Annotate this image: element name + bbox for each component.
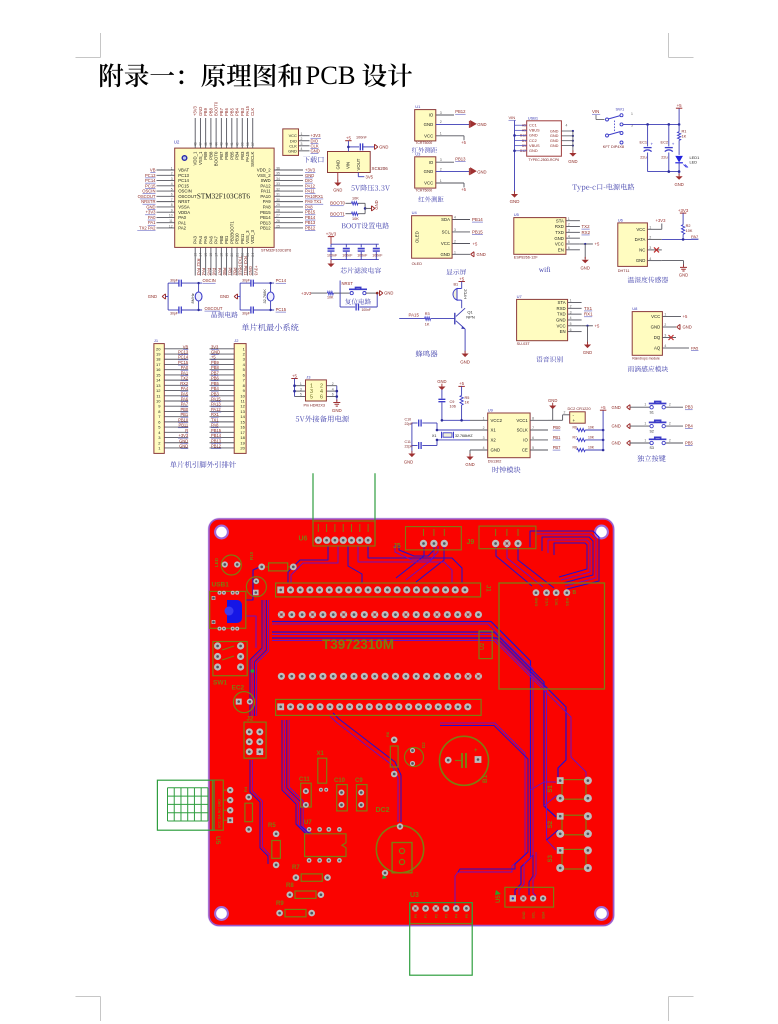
svg-text:1: 1 <box>300 382 302 386</box>
caption 复位电路 <box>345 298 371 304</box>
crystal Y1 8MHz with load caps <box>168 278 202 315</box>
svg-text:GND: GND <box>148 294 157 299</box>
svg-text:PB7: PB7 <box>553 445 561 450</box>
svg-text:43: 43 <box>220 142 224 146</box>
svg-text:32.768kHZ: 32.768kHZ <box>455 434 473 438</box>
clock chip U9 DS1302 <box>470 408 548 464</box>
caption 温湿度传感器 <box>628 277 668 283</box>
capacitor 100nF C1 <box>327 244 338 259</box>
svg-text:6: 6 <box>171 193 173 197</box>
svg-text:10K: 10K <box>588 446 595 450</box>
svg-text:C9: C9 <box>355 778 363 784</box>
svg-text:GND: GND <box>534 597 539 606</box>
svg-text:+: + <box>474 748 478 754</box>
svg-text:24: 24 <box>251 253 255 257</box>
svg-text:VCC: VCC <box>557 323 566 328</box>
svg-text:GND: GND <box>477 122 486 127</box>
net label PA15 and base resistor R3 1K <box>399 312 455 327</box>
svg-text:GND: GND <box>556 318 566 323</box>
svg-text:XC6206: XC6206 <box>372 166 389 171</box>
svg-text:4: 4 <box>171 182 173 186</box>
svg-text:EN: EN <box>560 329 566 334</box>
IR sensor U3 TCRT5000 <box>415 151 487 192</box>
svg-text:4: 4 <box>301 147 303 151</box>
svg-text:PA1: PA1 <box>178 220 186 225</box>
svg-text:B1: B1 <box>482 774 489 783</box>
svg-text:9: 9 <box>171 208 173 212</box>
svg-text:OSCOUT: OSCOUT <box>138 194 156 199</box>
svg-text:1: 1 <box>664 313 666 317</box>
trace top-left hooks <box>395 545 438 560</box>
svg-text:8: 8 <box>171 203 173 207</box>
svg-text:PA11: PA11 <box>261 189 271 194</box>
svg-text:10K: 10K <box>352 197 359 201</box>
power +3V3 (reset) <box>301 291 312 296</box>
svg-text:1: 1 <box>644 422 646 426</box>
svg-text:R5: R5 <box>465 396 470 400</box>
PCB resistor R5 <box>268 823 280 868</box>
wire junction to ground (BOOT) <box>364 200 379 213</box>
svg-text:R4: R4 <box>243 786 248 792</box>
svg-text:8MHz: 8MHz <box>190 293 195 303</box>
svg-text:R8: R8 <box>286 883 294 889</box>
svg-text:100nF: 100nF <box>362 308 371 312</box>
svg-text:PB14: PB14 <box>260 215 271 220</box>
svg-text:6: 6 <box>568 246 570 250</box>
svg-text:3: 3 <box>568 229 570 233</box>
caption 芯片滤波电容 <box>341 267 381 273</box>
wifi module U5 ESP8266-12F <box>514 212 580 260</box>
svg-text:45: 45 <box>209 142 213 146</box>
svg-text:SDA: SDA <box>441 217 450 222</box>
svg-text:GND: GND <box>332 408 342 413</box>
svg-text:+: + <box>672 141 675 146</box>
MCU U2 top pins, wires and net labels <box>193 101 256 167</box>
svg-text:TXD: TXD <box>555 230 564 235</box>
svg-text:PA7: PA7 <box>691 234 699 239</box>
svg-text:2: 2 <box>171 172 173 176</box>
svg-text:3: 3 <box>649 246 651 250</box>
svg-text:2: 2 <box>440 120 442 124</box>
svg-text:22pF: 22pF <box>405 422 414 426</box>
svg-text:S1: S1 <box>548 785 554 793</box>
svg-text:P2: P2 <box>434 914 438 918</box>
ground + cap C9 106 + resistor R5 1K (clock left) <box>437 379 470 422</box>
PCB IC U7 <box>304 820 346 863</box>
svg-text:30pF: 30pF <box>242 278 250 282</box>
svg-text:PA8: PA8 <box>305 204 313 209</box>
svg-text:PA9: PA9 <box>263 199 271 204</box>
trace bundle top right loop <box>530 531 599 589</box>
svg-text:BOOT0: BOOT0 <box>330 201 345 206</box>
svg-text:D2: D2 <box>421 742 426 748</box>
svg-text:8: 8 <box>532 417 534 421</box>
svg-text:X1: X1 <box>317 751 325 757</box>
resistor 10K (BOOT1) <box>346 212 366 221</box>
green annotation box (top, U6) <box>313 473 375 544</box>
PCB battery DC2 <box>376 807 424 879</box>
svg-text:VOUT: VOUT <box>356 158 361 170</box>
svg-text:GND: GND <box>583 350 592 355</box>
svg-text:2: 2 <box>664 323 666 327</box>
svg-text:GND: GND <box>491 448 501 453</box>
wire +5 to VIN with junction <box>347 141 359 152</box>
svg-text:GND: GND <box>510 199 520 204</box>
svg-text:NPN: NPN <box>466 314 475 319</box>
PCB diode D2 <box>405 742 427 767</box>
J2 net labels <box>211 344 222 448</box>
battery DC2 CR1220 <box>548 406 591 423</box>
svg-text:TX2: TX2 <box>582 224 591 229</box>
svg-text:GND: GND <box>568 159 577 164</box>
ground (OLED) <box>471 252 486 257</box>
svg-text:+5: +5 <box>461 187 466 192</box>
svg-text:GND: GND <box>581 265 590 270</box>
PCB socket header J1 row1 <box>276 583 491 597</box>
svg-text:R9: R9 <box>276 901 284 907</box>
svg-text:OSCOUT: OSCOUT <box>205 306 223 311</box>
push button S3 <box>612 437 694 450</box>
net label BOOT1 <box>330 211 345 216</box>
svg-text:2: 2 <box>669 422 671 426</box>
caption 红外测距 (U3) <box>418 196 443 202</box>
pull-up resistor R2 10K <box>678 208 693 240</box>
svg-text:AQ: AQ <box>654 346 661 351</box>
caption 显示屏 <box>446 269 466 275</box>
svg-text:25: 25 <box>276 224 280 228</box>
svg-text:GND: GND <box>651 325 661 330</box>
svg-text:PC13: PC13 <box>145 173 156 178</box>
svg-text:PB3: PB3 <box>685 405 693 410</box>
svg-text:VDDA: VDDA <box>178 210 190 215</box>
svg-text:4: 4 <box>454 216 456 220</box>
svg-text:1: 1 <box>483 417 485 421</box>
svg-text:STM32F103C8T6: STM32F103C8T6 <box>261 249 291 253</box>
PCB USB1 connector <box>210 582 246 631</box>
ground (crystal circuit 1) <box>148 294 168 299</box>
J1 net labels <box>178 344 189 448</box>
svg-text:+5: +5 <box>461 140 466 145</box>
PCB connector U5 (left, DHT11) + green hatch annotation <box>212 780 233 845</box>
svg-text:PB1: PB1 <box>553 435 561 440</box>
svg-text:7: 7 <box>171 198 173 202</box>
svg-text:P0: P0 <box>414 914 418 918</box>
svg-text:20: 20 <box>240 445 245 450</box>
filter capacitor rail wires <box>331 237 379 260</box>
trace bundle U5 bottom feed <box>529 852 536 896</box>
svg-text:5: 5 <box>570 322 572 326</box>
svg-text:48: 48 <box>194 142 198 146</box>
svg-text:GND: GND <box>146 204 155 209</box>
svg-text:SWD: SWD <box>261 178 271 183</box>
svg-text:EN: EN <box>558 247 564 252</box>
svg-text:LED: LED <box>214 557 219 567</box>
PCB connector J9 (3 pads) <box>467 526 536 549</box>
svg-text:X1: X1 <box>491 428 497 433</box>
svg-text:2: 2 <box>301 137 303 141</box>
svg-text:OSCOUT: OSCOUT <box>178 194 197 199</box>
svg-text:19: 19 <box>225 253 229 257</box>
trace to battery DC2 <box>330 713 401 822</box>
svg-text:C11: C11 <box>299 777 310 783</box>
capacitor 100nF <box>356 136 374 151</box>
svg-text:R6: R6 <box>573 426 577 430</box>
svg-text:4: 4 <box>570 316 572 320</box>
resistor R1 1K <box>678 124 687 154</box>
pull-up resistors 10K x3 (clock) <box>553 405 607 452</box>
svg-text:U5: U5 <box>514 212 520 217</box>
svg-text:29: 29 <box>276 203 280 207</box>
IR sensor U1 TCRT5000 <box>415 104 487 145</box>
svg-text:PA11: PA11 <box>305 189 315 194</box>
svg-text:TYPEC-250D-RCP6: TYPEC-250D-RCP6 <box>528 158 559 162</box>
svg-text:U7: U7 <box>517 294 523 299</box>
svg-text:PC13: PC13 <box>178 173 189 178</box>
PCB socket header J6 row4 <box>276 699 482 715</box>
svg-text:PC15: PC15 <box>276 307 287 312</box>
svg-text:GND: GND <box>437 379 446 384</box>
document title 附录一：原理图和 PCB 设计 <box>100 60 412 90</box>
buzzer B1 <box>453 282 468 309</box>
PCB board <box>208 518 616 928</box>
svg-text:10K: 10K <box>588 436 595 440</box>
caption 语音识别 <box>536 356 563 362</box>
PCB button S3 <box>548 846 592 872</box>
svg-text:4: 4 <box>332 387 334 391</box>
svg-text:VDD_3: VDD_3 <box>250 229 255 243</box>
svg-text:U6: U6 <box>299 536 308 543</box>
svg-text:14: 14 <box>199 253 203 257</box>
svg-text:ESP8266-12F: ESP8266-12F <box>514 256 539 260</box>
svg-text:OSCIN: OSCIN <box>178 189 192 194</box>
svg-text:J5: J5 <box>393 543 401 550</box>
svg-text:SCL: SCL <box>532 911 536 919</box>
display U4 OLED <box>412 210 470 266</box>
net label VIN (USB1 left) + wire to ground <box>509 115 520 204</box>
svg-text:31: 31 <box>276 193 280 197</box>
svg-text:DC2: DC2 <box>376 807 390 814</box>
trace bundle rows to right with diagonal fan <box>272 622 586 896</box>
svg-text:U5: U5 <box>214 836 221 845</box>
svg-text:PA15: PA15 <box>409 313 420 318</box>
svg-text:2: 2 <box>568 223 570 227</box>
net label TX2 <box>582 224 591 229</box>
svg-text:SDA: SDA <box>542 911 546 919</box>
svg-text:U2: U2 <box>480 643 486 650</box>
PCB resistor R8 <box>286 883 324 898</box>
svg-text:36: 36 <box>276 166 280 170</box>
svg-text:VCC: VCC <box>544 597 549 606</box>
svg-text:X2: X2 <box>491 438 497 443</box>
svg-text:GND: GND <box>305 173 314 178</box>
svg-text:GND: GND <box>336 160 341 170</box>
svg-text:J9: J9 <box>467 539 475 546</box>
caption 单片机引脚外引排针 <box>170 461 236 468</box>
regulator U10 XC6206 <box>328 152 389 173</box>
svg-text:DQ: DQ <box>654 335 661 340</box>
svg-text:PB13: PB13 <box>260 220 271 225</box>
svg-text:+5: +5 <box>473 241 478 246</box>
svg-text:+3V3: +3V3 <box>301 291 312 296</box>
svg-text:18: 18 <box>220 253 224 257</box>
svg-text:17: 17 <box>214 253 218 257</box>
caption 红外测距 (U1) <box>412 147 437 153</box>
svg-text:S1: S1 <box>650 410 654 414</box>
svg-text:30pF: 30pF <box>170 312 178 316</box>
caption wifi <box>539 266 551 274</box>
svg-text:PB13: PB13 <box>305 220 316 225</box>
PCB socket header row2 <box>278 611 482 618</box>
MCU U2 STM32F103C8T6 <box>174 140 291 253</box>
MCU U2 right pins, wires and net labels <box>257 166 324 230</box>
svg-text:33: 33 <box>276 182 280 186</box>
PCB capacitor C9 <box>355 778 367 811</box>
svg-text:DATA: DATA <box>635 237 646 242</box>
net label PC15 <box>276 307 287 312</box>
svg-text:3: 3 <box>300 387 302 391</box>
PCB capacitor C10 <box>334 778 347 811</box>
svg-text:22u: 22u <box>661 155 668 160</box>
svg-text:+5: +5 <box>459 381 465 386</box>
svg-text:3: 3 <box>570 310 572 314</box>
ground (raindrop) <box>677 324 692 329</box>
capacitor 100nF C2 <box>342 244 353 259</box>
svg-text:X1: X1 <box>432 434 437 438</box>
transistor Q1 NPN <box>455 308 475 329</box>
caption 5V外接备用电源 <box>296 415 349 422</box>
PCB button S1 <box>548 777 592 803</box>
power +3V3 (DHT11 pin1) <box>656 218 667 229</box>
svg-text:GND: GND <box>674 182 683 187</box>
caption 5V降压3.3V <box>351 185 390 192</box>
svg-text:PB13: PB13 <box>455 156 466 161</box>
svg-text:32: 32 <box>276 187 280 191</box>
svg-text:4: 4 <box>664 344 666 348</box>
svg-text:2: 2 <box>649 236 651 240</box>
svg-text:10K: 10K <box>588 426 595 430</box>
svg-text:GND: GND <box>550 143 559 148</box>
PCB LED footprint <box>214 555 241 575</box>
svg-text:Pin HDR2X3: Pin HDR2X3 <box>304 403 326 407</box>
svg-text:CLK: CLK <box>250 108 255 116</box>
power +5 (J3) <box>291 373 297 396</box>
svg-text:VB: VB <box>150 168 156 173</box>
svg-text:SWCLK: SWCLK <box>250 151 255 166</box>
svg-text:J2: J2 <box>234 338 239 343</box>
green annotation box + grid (left) <box>157 780 214 830</box>
svg-text:GND: GND <box>636 258 646 263</box>
crystal Y2 32.768K with load caps <box>240 278 274 315</box>
vertical trace bundle left (J2 feed) <box>250 600 269 716</box>
power +5 (wifi) and wires <box>580 242 600 247</box>
MCU U2 left pins, wires and net labels <box>137 166 197 230</box>
svg-text:+5: +5 <box>601 405 607 410</box>
svg-text:STA: STA <box>556 218 564 223</box>
power +5 (buzzer) <box>459 276 465 281</box>
push button S1 <box>612 402 694 415</box>
svg-text:PB14: PB14 <box>305 215 316 220</box>
svg-text:VIN: VIN <box>346 162 351 169</box>
svg-text:R2: R2 <box>686 224 691 228</box>
svg-text:GND: GND <box>612 441 621 446</box>
svg-text:SW1: SW1 <box>616 107 625 112</box>
svg-text:30: 30 <box>276 198 280 202</box>
svg-text:3: 3 <box>454 228 456 232</box>
svg-text:2: 2 <box>570 305 572 309</box>
svg-text:GND: GND <box>333 188 342 193</box>
svg-text:DC2 CR1220: DC2 CR1220 <box>568 406 592 411</box>
svg-text:PB15: PB15 <box>472 229 483 234</box>
svg-text:EC2: EC2 <box>232 685 245 692</box>
svg-text:GND: GND <box>220 294 229 299</box>
svg-text:100nF: 100nF <box>372 254 383 258</box>
svg-text:+3V3: +3V3 <box>326 231 337 236</box>
svg-text:+: + <box>651 141 654 146</box>
svg-text:GND: GND <box>424 169 434 174</box>
svg-text:VBAT: VBAT <box>178 168 189 173</box>
ground (reset) <box>380 291 394 296</box>
svg-text:34: 34 <box>276 177 280 181</box>
svg-text:CE: CE <box>522 448 528 453</box>
svg-text:U7: U7 <box>304 820 312 826</box>
svg-text:2: 2 <box>669 403 671 407</box>
svg-text:23: 23 <box>246 253 250 257</box>
svg-text:PB5: PB5 <box>685 440 693 445</box>
svg-text:S3: S3 <box>650 446 654 450</box>
svg-text:GND: GND <box>679 272 688 277</box>
svg-text:P4: P4 <box>455 914 459 918</box>
net label OSCIN <box>203 278 216 283</box>
ground (buzzer emitter) <box>460 329 470 365</box>
ground (U9 GND pin) <box>465 450 474 467</box>
svg-text:P3: P3 <box>445 914 449 918</box>
PCB resistor R9 <box>276 901 315 917</box>
svg-text:PA1: PA1 <box>148 220 156 225</box>
svg-text:30pF: 30pF <box>242 312 250 316</box>
svg-text:DHT11: DHT11 <box>618 269 630 273</box>
svg-text:100nF: 100nF <box>356 136 367 140</box>
svg-text:J2: J2 <box>247 717 254 723</box>
svg-text:1: 1 <box>568 217 570 221</box>
svg-text:26: 26 <box>276 219 280 223</box>
svg-text:RXD: RXD <box>555 224 564 229</box>
svg-text:38: 38 <box>246 142 250 146</box>
ground (battery) <box>548 398 557 420</box>
svg-text:S3: S3 <box>548 854 554 862</box>
PCB crystal X1 <box>317 751 329 792</box>
svg-text:C10: C10 <box>334 778 346 784</box>
svg-text:GND: GND <box>465 462 474 467</box>
connector USB1 Type-C <box>515 116 562 162</box>
svg-text:2: 2 <box>669 439 671 443</box>
svg-text:BOOT1: BOOT1 <box>330 211 345 216</box>
svg-text:PC14: PC14 <box>276 278 287 283</box>
net label PB14 <box>472 217 483 222</box>
ground (clock crystal) <box>404 450 416 464</box>
svg-text:+3V3: +3V3 <box>656 218 667 223</box>
svg-text:12: 12 <box>169 224 173 228</box>
svg-text:PC14: PC14 <box>145 178 156 183</box>
svg-text:+5: +5 <box>595 242 600 247</box>
svg-text:+5: +5 <box>459 276 465 281</box>
svg-text:2: 2 <box>332 382 334 386</box>
svg-text:SCL: SCL <box>442 230 451 235</box>
wire VOUT down-right + 3V3 label <box>358 173 373 180</box>
connector J3 Pin HDR2X3 <box>295 374 337 407</box>
pin header J1 <box>154 338 188 453</box>
PCB resistor R7 <box>292 865 331 881</box>
svg-text:PA10RX1: PA10RX1 <box>305 194 324 199</box>
